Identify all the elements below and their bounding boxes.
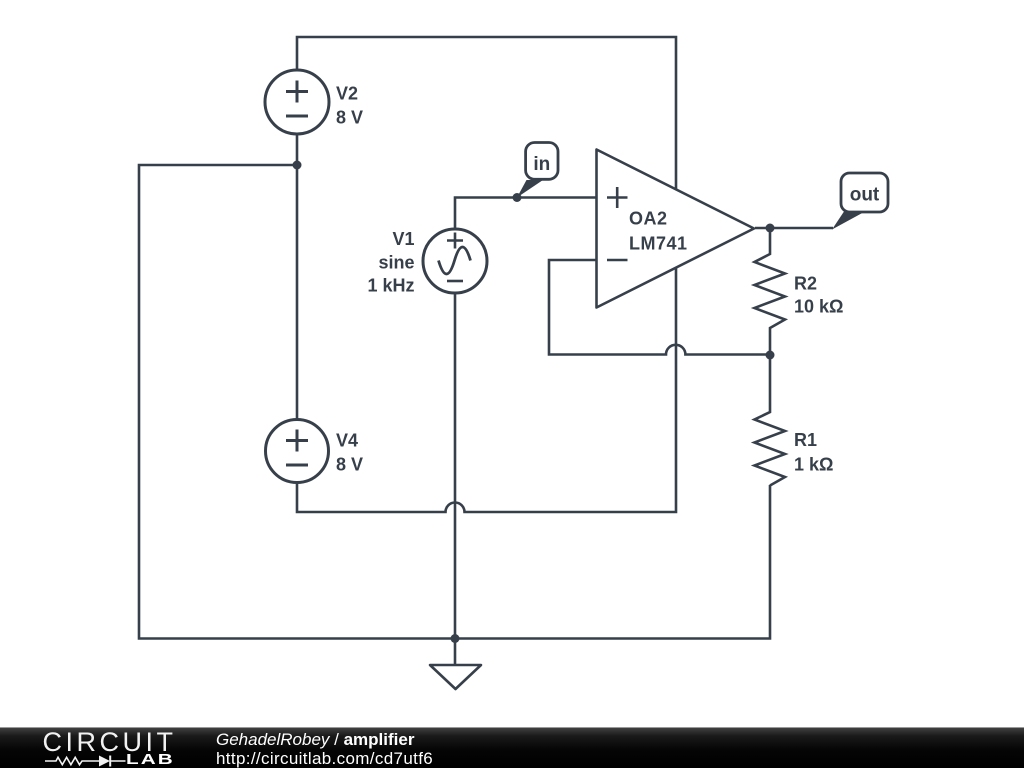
voltage source V2 circle bbox=[265, 70, 329, 134]
footer text bbox=[216, 731, 433, 768]
wire V2 bottom to V4 top bbox=[296, 134, 299, 420]
CircuitLab logo wordmark bbox=[43, 729, 177, 756]
wire left return: junction below V2 to left rail x=139 down to bottom rail to R1 bottom bbox=[139, 165, 770, 639]
wire V1 bottom to ground node bbox=[454, 293, 457, 665]
footer bar bbox=[0, 727, 1024, 768]
svg-text:sine: sine bbox=[378, 252, 414, 272]
node out dot bbox=[766, 224, 775, 233]
svg-text:V2: V2 bbox=[336, 84, 358, 104]
node feedback junction dot bbox=[766, 351, 775, 360]
svg-text:LM741: LM741 bbox=[629, 233, 688, 253]
voltage source V4 circle bbox=[266, 420, 329, 483]
svg-text:R1: R1 bbox=[794, 430, 817, 450]
svg-text:8 V: 8 V bbox=[336, 455, 363, 475]
svg-text:1 kΩ: 1 kΩ bbox=[794, 455, 833, 475]
resistor R2 10k zigzag with leads bbox=[755, 228, 786, 355]
op-amp OA2 triangle bbox=[597, 150, 755, 308]
voltage source V1 sine circle bbox=[423, 229, 487, 293]
node label out flag bbox=[832, 173, 888, 230]
svg-text:V1: V1 bbox=[392, 229, 414, 249]
node label in flag bbox=[517, 143, 558, 198]
svg-text:R2: R2 bbox=[794, 274, 817, 294]
node in dot bbox=[513, 193, 522, 202]
node ground junction dot bbox=[451, 634, 460, 643]
logo resistor-diode doodle bbox=[44, 754, 130, 768]
svg-text:8 V: 8 V bbox=[336, 108, 363, 128]
svg-text:1 kHz: 1 kHz bbox=[367, 276, 414, 296]
svg-text:10 kΩ: 10 kΩ bbox=[794, 297, 843, 317]
wire V1 top to op-amp non-inverting input bbox=[455, 198, 596, 230]
svg-text:in: in bbox=[533, 154, 550, 175]
svg-text:V4: V4 bbox=[336, 431, 358, 451]
wire op-amp output to out label bbox=[755, 227, 833, 230]
svg-text:OA2: OA2 bbox=[629, 209, 668, 229]
wire positive supply rail: V2 top to x=676 vertical to y=512 horizontal back to V4 bottom bbox=[297, 37, 676, 512]
svg-text:out: out bbox=[850, 185, 880, 206]
ground symbol bbox=[430, 665, 481, 689]
wire feedback: op-amp inverting input to R1/R2 junction with hop over vertical rail bbox=[549, 260, 770, 355]
node junction dot below V2 bbox=[293, 161, 302, 170]
resistor R1 1k zigzag with leads bbox=[755, 355, 786, 486]
